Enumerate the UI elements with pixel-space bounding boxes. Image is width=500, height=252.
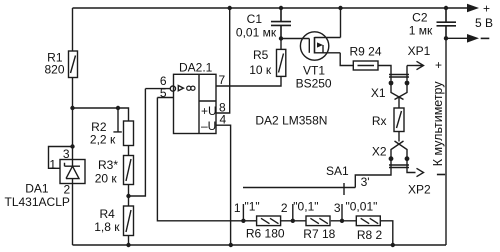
junction R4 / 0V rail [126,243,130,247]
svg-text:2,2 к: 2,2 к [90,133,116,147]
clip X2 left contact dot [389,156,394,161]
svg-text:2: 2 [64,183,71,197]
resistor R3 [124,156,134,185]
wire left rail (R1 branch) [72,8,74,160]
junction C1 / +5V rail [279,6,283,10]
capacitor C1 [271,8,291,39]
svg-text:+: + [483,2,490,16]
junction node R3/R4 feedback [126,194,130,198]
switch SA1 wiper [243,187,355,189]
svg-text:R4: R4 [99,207,115,221]
svg-text:DA2 LM358N: DA2 LM358N [255,114,327,128]
output arrow plus [467,4,479,13]
svg-text:+U: +U [201,104,217,118]
svg-text:1 мк: 1 мк [409,23,433,37]
svg-text:–U: –U [201,119,216,133]
svg-text:R5: R5 [253,48,269,62]
wire R4 to rail [128,236,130,246]
svg-text:X1: X1 [371,86,386,100]
svg-text:"1": "1" [245,200,260,214]
svg-text:XP1: XP1 [408,44,431,58]
clip X1 right contact dot [405,81,410,86]
output arrow minus [467,34,479,43]
wire pin5 to R6 node [157,98,243,221]
svg-text:1,8 к: 1,8 к [94,220,120,234]
wire X2 to SA1 [355,159,391,188]
transistor VT1 [300,32,328,60]
svg-text:R8 2: R8 2 [357,228,383,242]
resistor R1 [69,51,78,78]
resistor R8 [356,216,380,226]
junction chassis tap / R2 feed [116,106,120,110]
wire X2 to XP2 [407,159,416,173]
wire right rail [445,38,447,245]
wire R6 to node2 to R7 [281,220,306,222]
resistor R7 [306,216,330,226]
svg-text:2: 2 [281,201,288,215]
wire R8 to 0V rail [381,221,393,245]
svg-text:20 к: 20 к [95,172,118,186]
svg-text:TL431ACLP: TL431ACLP [5,195,70,209]
wire bottom 0V rail [73,244,447,246]
switch SA1 contact 3 [341,204,343,221]
clip X1 left contact dot [389,81,394,86]
wire X1 to XP1 [407,65,416,67]
op-amp DA2.1 box [174,74,217,133]
svg-text:К мультиметру: К мультиметру [431,81,445,167]
svg-text:"0,1": "0,1" [293,200,318,214]
svg-text:X2: X2 [372,144,387,158]
clip X1 [389,75,409,78]
wire top +5V rail [73,7,468,9]
resistor R5 [277,49,286,76]
svg-text:C1: C1 [247,12,263,26]
junction DA2 supply / +5V rail [228,6,232,10]
svg-text:5 В: 5 В [475,16,493,30]
svg-text:Rx: Rx [372,114,387,128]
wire R7 to node3 to R8 [331,220,357,222]
svg-text:R7 18: R7 18 [303,227,335,241]
wire pin4 to 0V [216,125,231,245]
wire gate node to VT1 [281,38,309,40]
junction DA1 cathode / ref [70,144,74,148]
chassis tap [113,108,121,132]
wire pin7 output to R5 [216,76,281,86]
svg-text:0,01 мк: 0,01 мк [236,25,277,39]
wire pin5 input [157,97,173,99]
clip X2 right contact dot [405,156,410,161]
svg-text:3: 3 [63,147,70,161]
plug XP2 arrow [417,168,424,176]
svg-text:R6 180: R6 180 [246,227,285,241]
op-amp infinity [187,86,191,90]
wire X1 to Rx [398,97,400,109]
DA1 box [60,160,85,184]
svg-text:1: 1 [49,157,56,171]
wire node1 to R6 [243,220,256,222]
wire R3-R4 node [128,185,130,207]
clip X2 [389,165,409,168]
wire DA1 pin2 to rail [72,184,74,246]
wire Rx to X2 [398,132,400,142]
resistor R4 [124,206,134,236]
junction node 3 / R7 R8 [340,219,344,223]
junction R8 / 0V rail [391,243,395,247]
DA1 ref hook wire [49,147,73,169]
svg-text:VT1: VT1 [303,63,325,77]
switch SA1 contact 3' [343,183,345,195]
junction node VT1 gate / C1 / R5 [279,36,283,40]
junction C2 / +5V rail [444,6,448,10]
wire R9 to X1 [378,66,391,81]
svg-text:7: 7 [219,73,226,87]
wire VT1 top to rail [340,8,342,38]
svg-text:DA1: DA1 [25,182,49,196]
TL431 symbol [65,160,81,184]
svg-text:DA2.1: DA2.1 [179,61,213,75]
resistor Rx [394,108,404,132]
svg-text:XP2: XP2 [408,182,431,196]
svg-text:10 к: 10 к [249,63,272,77]
svg-text:"0,01": "0,01" [346,200,378,214]
wire R2-R3 [128,146,130,156]
svg-text:5: 5 [160,86,167,100]
label minus 5V [481,37,490,39]
wire VT1 to R9 [340,53,353,66]
wire pin8 to +5V [216,8,230,113]
plug XP1 arrow [416,61,424,69]
junction DA2 pin4 / 0V rail [229,243,233,247]
junction node 2 / R6 R7 [291,219,295,223]
switch SA1 contact 1 [242,204,244,221]
svg-text:3: 3 [334,201,341,215]
svg-text:BS250: BS250 [296,76,332,90]
svg-text:3': 3' [361,175,370,189]
svg-text:4: 4 [220,113,227,127]
svg-text:+: + [435,58,442,72]
VT1 bulk arrow [317,42,323,47]
svg-text:SA1: SA1 [326,164,349,178]
capacitor C2 [437,8,457,38]
svg-text:1: 1 [234,201,241,215]
op-amp triangle [178,86,183,91]
resistor R2 [124,121,134,146]
wire minus output [446,37,467,39]
resistor R6 [257,216,281,226]
label minus XP2 [437,174,445,176]
junction R1 / R2 feed [70,106,74,110]
svg-text:820: 820 [44,62,64,76]
junction VT1 source / +5V rail [338,6,342,10]
junction C2 / minus rail [444,36,448,40]
switch SA1 contact 2 [292,204,294,221]
svg-text:R9 24: R9 24 [349,45,381,59]
resistor R9 [353,61,378,70]
wire R2 feed [73,108,129,121]
junction node 1 / R6 [241,219,245,223]
wire pin6 feedback to R3/R4 node [129,89,146,196]
wire R5 top to gate node [280,39,282,50]
op-amp inversion circle pin6 [170,86,175,91]
wire pin6 input [145,88,170,90]
svg-text:R3*: R3* [98,158,118,172]
